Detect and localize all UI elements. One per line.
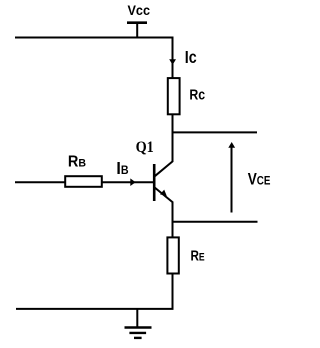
top supply wire xyxy=(15,37,174,39)
transistor Q1 emitter arrow xyxy=(160,190,167,196)
current arrow Ic xyxy=(169,59,176,65)
wire: Rc to collector xyxy=(172,115,174,162)
voltage arrow VCE head xyxy=(228,142,235,148)
svg-text:Rc: Rc xyxy=(189,87,205,103)
svg-text:Vcc: Vcc xyxy=(128,3,150,19)
transistor Q1 collector lead xyxy=(155,161,173,176)
emitter wire xyxy=(172,202,174,238)
svg-text:VCE: VCE xyxy=(248,170,271,189)
Vcc terminal bar xyxy=(127,21,147,24)
svg-text:RB: RB xyxy=(68,153,86,171)
voltage arrow VCE shaft xyxy=(231,145,233,213)
ground stub xyxy=(136,309,138,327)
ground bar 2 xyxy=(129,332,146,334)
transistor Q1 base bar xyxy=(153,164,156,201)
label Q1 xyxy=(136,140,154,157)
label VCE xyxy=(248,170,271,189)
wire: RE to ground rail xyxy=(172,275,174,310)
transistor Q1 emitter lead xyxy=(155,188,173,203)
resistor RE xyxy=(167,237,178,273)
label IB xyxy=(116,158,128,178)
label RB xyxy=(68,153,86,171)
label Ic xyxy=(185,49,197,67)
current arrow IB xyxy=(130,178,135,186)
Vcc label xyxy=(128,3,150,19)
label Rc xyxy=(189,87,205,103)
resistor Rc xyxy=(168,78,180,114)
Vcc stub wire xyxy=(136,23,138,38)
bottom ground rail wire xyxy=(16,308,174,310)
emitter output line xyxy=(173,221,258,223)
wire: rail down to Rc xyxy=(172,37,174,79)
ground bar 3 xyxy=(134,337,142,339)
svg-text:Q1: Q1 xyxy=(136,140,154,157)
base wire xyxy=(15,181,154,183)
ground bar 1 xyxy=(125,326,152,328)
svg-text:RE: RE xyxy=(191,247,206,264)
collector output line xyxy=(173,131,258,133)
label RE xyxy=(191,247,206,264)
svg-text:IB: IB xyxy=(116,158,128,178)
svg-text:Ic: Ic xyxy=(185,49,197,67)
resistor RB xyxy=(65,176,102,187)
